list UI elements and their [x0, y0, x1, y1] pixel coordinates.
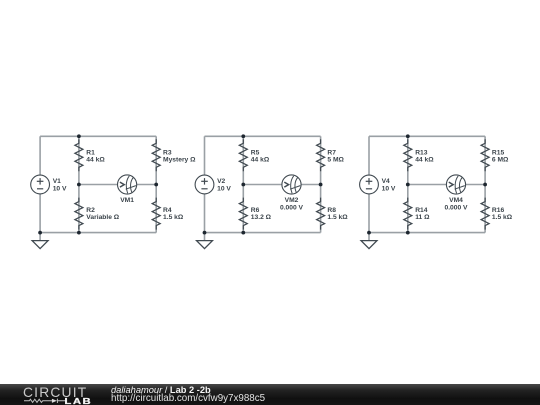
wire: circuit 3 middle branch [407, 136, 409, 232]
resistor R7 [317, 139, 345, 171]
wire: circuit 3 top rail [369, 135, 485, 137]
wire: circuit 1 right branch [155, 136, 157, 232]
wire: circuit 1 top rail [40, 135, 156, 137]
resistor R13 [404, 139, 434, 171]
wire: circuit 2 left rail [204, 136, 206, 232]
node: circuit 1 top-middle junction [77, 134, 81, 138]
wire: circuit 2 middle branch [242, 136, 244, 232]
CircuitLab logo [23, 385, 87, 400]
wire: circuit 1 bottom rail [40, 232, 156, 234]
svg-text:1.5 kΩ: 1.5 kΩ [163, 214, 184, 221]
node: circuit 3 mid-right junction [483, 183, 487, 187]
wire: circuit 3 right branch [484, 136, 486, 232]
wire: circuit 3 left rail [368, 136, 370, 232]
node: circuit 3 bottom-middle junction [406, 231, 410, 235]
node: circuit 1 bottom-middle junction [77, 231, 81, 235]
node: circuit 3 top-middle junction [406, 134, 410, 138]
svg-text:Mystery Ω: Mystery Ω [163, 157, 196, 164]
resistor R15 [481, 139, 509, 171]
wire: circuit 2 ground stub [204, 233, 206, 241]
svg-text:0.000 V: 0.000 V [444, 204, 468, 211]
wire: circuit 2 top rail [205, 135, 321, 137]
svg-text:0.000 V: 0.000 V [280, 204, 304, 211]
wire: circuit 2 right branch [320, 136, 322, 232]
node: circuit 3 mid-left junction [406, 183, 410, 187]
wire: circuit 2 meter wire [243, 184, 320, 186]
svg-text:R7: R7 [327, 149, 336, 156]
svg-text:5 MΩ: 5 MΩ [327, 157, 344, 164]
resistor R5 [239, 139, 270, 171]
svg-text:V4: V4 [382, 178, 390, 185]
svg-text:R2: R2 [86, 207, 95, 214]
node: circuit 2 top-middle junction [241, 134, 245, 138]
svg-text:R4: R4 [163, 207, 172, 214]
resistor R14 [404, 198, 430, 230]
svg-text:R6: R6 [251, 207, 260, 214]
wire: circuit 1 left rail [39, 136, 41, 232]
svg-text:44 kΩ: 44 kΩ [415, 157, 434, 164]
node: circuit 2 ground junction [203, 231, 207, 235]
resistor R1 [75, 139, 105, 171]
node: circuit 3 ground junction [367, 231, 371, 235]
node: circuit 2 bottom-middle junction [241, 231, 245, 235]
footer bar [0, 384, 540, 405]
svg-text:V2: V2 [217, 178, 225, 185]
svg-text:R3: R3 [163, 149, 172, 156]
svg-text:10 V: 10 V [53, 185, 67, 192]
svg-text:6 MΩ: 6 MΩ [492, 157, 509, 164]
svg-text:R1: R1 [86, 149, 95, 156]
ground [361, 241, 377, 249]
voltmeter VM1 [118, 175, 137, 204]
wire: circuit 1 meter wire [79, 184, 156, 186]
svg-text:R13: R13 [415, 149, 428, 156]
wire: circuit 3 meter wire [408, 184, 485, 186]
resistor R16 [481, 198, 513, 230]
resistor R2 [75, 198, 120, 230]
resistor R4 [152, 198, 184, 230]
node: circuit 1 ground junction [38, 231, 42, 235]
svg-text:R5: R5 [251, 149, 260, 156]
svg-text:VM1: VM1 [120, 197, 134, 204]
voltmeter VM4 [444, 175, 468, 211]
wire: circuit 1 ground stub [39, 233, 41, 241]
svg-text:44 kΩ: 44 kΩ [251, 157, 270, 164]
title text [111, 385, 211, 395]
svg-text:10 V: 10 V [382, 185, 396, 192]
ground [197, 241, 213, 249]
voltage source V4 [360, 175, 396, 194]
url text [111, 393, 265, 404]
svg-text:11 Ω: 11 Ω [415, 214, 430, 221]
svg-text:V1: V1 [53, 178, 61, 185]
svg-text:10 V: 10 V [217, 185, 231, 192]
svg-text:LAB: LAB [65, 398, 93, 405]
voltage source V2 [195, 175, 231, 194]
wire: circuit 1 middle branch [78, 136, 80, 232]
logo resistor-diode squiggle [24, 399, 65, 403]
ground [32, 241, 48, 249]
voltage source V1 [31, 175, 67, 194]
wire: circuit 2 bottom rail [205, 232, 321, 234]
node: circuit 2 mid-left junction [241, 183, 245, 187]
node: circuit 1 mid-left junction [77, 183, 81, 187]
svg-text:VM4: VM4 [449, 197, 463, 204]
node: circuit 2 mid-right junction [319, 183, 323, 187]
svg-text:R14: R14 [415, 207, 428, 214]
resistor R6 [239, 198, 271, 230]
svg-text:R15: R15 [492, 149, 505, 156]
wire: circuit 3 ground stub [368, 233, 370, 241]
svg-text:1.5 kΩ: 1.5 kΩ [492, 214, 513, 221]
svg-text:Variable Ω: Variable Ω [86, 214, 120, 221]
svg-text:44 kΩ: 44 kΩ [86, 157, 105, 164]
svg-text:VM2: VM2 [285, 197, 299, 204]
svg-text:13.2 Ω: 13.2 Ω [251, 214, 272, 221]
resistor R3 [152, 139, 196, 171]
svg-text:R8: R8 [327, 207, 336, 214]
svg-text:R16: R16 [492, 207, 505, 214]
resistor R8 [317, 198, 349, 230]
svg-text:1.5 kΩ: 1.5 kΩ [327, 214, 348, 221]
voltmeter VM2 [280, 175, 304, 211]
wire: circuit 3 bottom rail [369, 232, 485, 234]
node: circuit 1 mid-right junction [154, 183, 158, 187]
